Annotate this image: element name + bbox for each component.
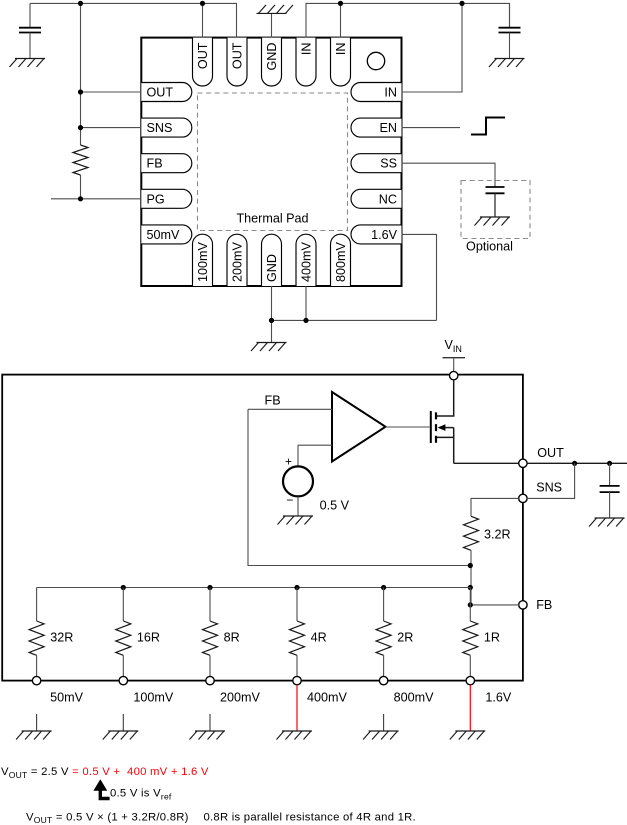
junction left-vert/SNS: [78, 125, 83, 130]
junction FB-loop/3.2R: [468, 563, 473, 568]
wire 1.6V to bottom rail: [402, 234, 437, 320]
pin 800mV (bottom row): [331, 234, 351, 286]
wire rail to 8R: [209, 588, 211, 622]
pin OUT (left col): [141, 83, 192, 102]
resistor 16R: [116, 621, 131, 655]
wire resistor ladder rail: [37, 587, 471, 589]
svg-text:1R: 1R: [484, 631, 500, 645]
svg-text:2R: 2R: [397, 631, 413, 645]
svg-text:32R: 32R: [50, 631, 73, 645]
junction rail/2R: [381, 585, 386, 590]
svg-text:100mV: 100mV: [133, 690, 174, 704]
svg-text:NC: NC: [379, 192, 397, 206]
svg-text:GND: GND: [265, 254, 279, 282]
wire to pin OUT (left): [81, 91, 142, 93]
wire non-inverting input: [298, 444, 332, 446]
svg-text:OUT: OUT: [196, 42, 210, 69]
junction gnd-rail/GND: [269, 318, 274, 323]
resistor 4R: [290, 621, 305, 655]
svg-text:FB: FB: [265, 393, 281, 407]
svg-text:OUT: OUT: [537, 446, 564, 460]
junction left-vert/OUT: [78, 89, 83, 94]
wire 2R to terminal: [383, 655, 385, 676]
wire rail to 1R: [469, 588, 471, 622]
junction rail/8R: [207, 585, 212, 590]
wire 8R to terminal: [209, 655, 211, 676]
resistor 2R: [376, 621, 391, 655]
wire 4R to terminal: [296, 655, 298, 676]
wire stub gnd 50mV: [36, 714, 38, 731]
svg-text:400mV: 400mV: [307, 690, 348, 704]
svg-text:0.8R is parallel resistance of: 0.8R is parallel resistance of 4R and 1R…: [204, 811, 416, 823]
wire rail to 2R: [383, 588, 385, 622]
svg-text:VOUT = 2.5 V = 0.5 V + 400 mV: VOUT = 2.5 V = 0.5 V + 400 mV + 1.6 V: [1, 766, 209, 780]
ground 800mV (floating): [363, 731, 399, 740]
wire op-amp out to gate: [386, 426, 430, 428]
ground 1.6V (selected): [450, 731, 486, 740]
svg-text:0.5 V is Vref: 0.5 V is Vref: [110, 788, 172, 802]
terminal pin 800mV: [379, 676, 387, 684]
svg-text:+: +: [285, 454, 292, 468]
wire to pin SNS: [81, 127, 142, 129]
junction left-vert/PG: [78, 196, 83, 201]
wire bottom gnd rail: [272, 319, 437, 321]
junction OUT/cap: [607, 461, 612, 466]
pin SS (right col): [351, 154, 402, 173]
pin 50mV (left col): [141, 225, 192, 244]
wire 32R to terminal: [36, 655, 38, 676]
pin 1 indicator circle: [367, 52, 384, 69]
svg-text:−: −: [286, 493, 293, 507]
wire drop to pin OUT1: [202, 3, 204, 37]
voltage source Vref 0.5V: [283, 466, 313, 496]
svg-text:SNS: SNS: [536, 480, 562, 494]
resistor 1R: [463, 621, 478, 655]
junction rail/4R: [294, 585, 299, 590]
EN step waveform symbol: [471, 118, 505, 135]
svg-text:200mV: 200mV: [220, 690, 261, 704]
svg-text:VIN: VIN: [445, 338, 462, 354]
pin 200mV (bottom row): [227, 234, 247, 286]
wire 400mV to ground (red): [296, 685, 298, 731]
wire 1.6V to ground (red): [469, 685, 471, 731]
VIN supply bar: [443, 357, 466, 359]
terminal FB: [519, 601, 527, 609]
terminal pin 1.6V: [466, 676, 474, 684]
resistor 32R: [29, 621, 44, 655]
pin FB (left col): [141, 154, 192, 173]
junction rail2/pin IN5: [338, 1, 343, 6]
svg-text:OUT: OUT: [231, 42, 245, 69]
svg-text:16R: 16R: [137, 631, 160, 645]
resistor PG pull-up: [73, 145, 88, 175]
terminal pin 50mV: [32, 676, 40, 684]
wire VIN to terminal: [453, 358, 455, 372]
wire drop to pin IN5: [340, 3, 342, 37]
pin IN (right col): [351, 83, 402, 102]
wire EN: [402, 127, 461, 129]
pin EN (right col): [351, 118, 402, 137]
wire SNS internal: [471, 498, 519, 516]
wire OUT external: [527, 462, 627, 464]
svg-text:VOUT = 0.5 V × (1 + 3.2R/0.8R): VOUT = 0.5 V × (1 + 3.2R/0.8R): [26, 811, 189, 825]
wire rail OUT (top-left): [30, 3, 237, 37]
ground C2: [489, 59, 525, 68]
svg-text:1.6V: 1.6V: [371, 228, 398, 242]
terminal OUT: [519, 459, 527, 467]
wire PG stub: [51, 198, 141, 200]
capacitor C2 input (right): [499, 3, 521, 58]
junction OUT/SNS kelvin: [572, 461, 577, 466]
wire rail to 32R: [36, 588, 38, 622]
wire SNS kelvin sense: [527, 463, 575, 498]
ground Vref: [278, 516, 314, 525]
capacitor C1 input (left): [19, 3, 41, 58]
svg-text:Thermal Pad: Thermal Pad: [236, 212, 308, 226]
junction rail/16R: [121, 585, 126, 590]
pin OUT (top row): [193, 38, 213, 86]
resistor 3.2R: [464, 516, 479, 550]
svg-text:1.6V: 1.6V: [485, 690, 512, 704]
pin NC (right col): [351, 189, 402, 208]
svg-text:SS: SS: [380, 157, 397, 171]
functional block outline: [2, 375, 523, 681]
ground 200mV (floating): [190, 731, 226, 740]
junction rail/left-vert: [78, 1, 83, 6]
pin IN (top row): [296, 38, 316, 86]
wire rail to 4R: [296, 588, 298, 622]
pin PG (left col): [141, 189, 192, 208]
wire 1R to terminal: [469, 655, 471, 676]
ground C3: [589, 518, 625, 527]
terminal pin 100mV: [119, 676, 127, 684]
wire Vref to ground: [297, 496, 299, 516]
wire stub gnd 200mV: [209, 714, 211, 731]
wire FB feedback loop: [248, 409, 470, 565]
wire 400mV pin down: [305, 286, 307, 320]
capacitor optional SS: [486, 187, 505, 217]
svg-text:PG: PG: [147, 192, 165, 206]
svg-text:SNS: SNS: [147, 121, 173, 135]
annotation arrow: [100, 790, 109, 799]
svg-text:8R: 8R: [224, 631, 240, 645]
wire 16R to terminal: [122, 655, 124, 676]
svg-text:FB: FB: [536, 598, 552, 612]
wire resistor to PG: [80, 175, 82, 199]
svg-text:IN: IN: [300, 43, 314, 56]
wire SS to optional cap: [402, 163, 496, 187]
optional cap dashed box: [461, 181, 530, 239]
junction gnd-rail/400mV: [303, 318, 308, 323]
svg-text:0.5 V: 0.5 V: [320, 499, 350, 513]
svg-text:IN: IN: [334, 43, 348, 56]
IC package outline: [141, 38, 401, 286]
ground above GND pin: [257, 5, 294, 14]
terminal pin 400mV: [293, 676, 301, 684]
svg-text:400mV: 400mV: [300, 241, 314, 282]
junction rail2/IN-drop: [459, 1, 464, 6]
pin GND (top row): [262, 38, 282, 86]
thermal pad dashed outline: [198, 93, 348, 231]
resistor 8R: [203, 621, 218, 655]
wire rail IN (top-right): [306, 3, 510, 37]
junction FB-node/rail: [468, 585, 473, 590]
svg-text:IN: IN: [384, 86, 397, 100]
ground C1: [10, 59, 46, 68]
wire rail to 16R: [122, 588, 124, 622]
svg-text:50mV: 50mV: [147, 228, 180, 242]
svg-text:EN: EN: [380, 121, 398, 135]
pin OUT (top row): [227, 38, 247, 86]
svg-text:Optional: Optional: [466, 240, 513, 254]
ground bottom of package: [251, 343, 287, 352]
capacitor C3 output: [600, 463, 620, 518]
junction FB-node/FB-pin: [468, 602, 473, 607]
wire inverting input: [248, 408, 332, 410]
pin IN (top row): [331, 38, 351, 86]
wire to Vref source: [297, 445, 299, 466]
svg-text:OUT: OUT: [147, 86, 174, 100]
wire left vertical OUT/SNS: [80, 3, 82, 145]
wire FB node to FB pin: [470, 604, 518, 606]
svg-text:50mV: 50mV: [50, 690, 83, 704]
ground 50mV (floating): [16, 731, 52, 740]
op-amp error amplifier: [332, 392, 386, 462]
svg-text:100mV: 100mV: [196, 241, 210, 282]
wire GND pin down: [271, 286, 273, 343]
ground 400mV (selected): [277, 731, 313, 740]
terminal VIN: [450, 371, 458, 379]
pin 100mV (bottom row): [193, 234, 213, 286]
wire rail to IN pin (right): [402, 3, 463, 92]
wire FET source to OUT: [454, 462, 519, 464]
transistor Q1 pass FET: [431, 380, 454, 464]
ground 100mV (floating): [103, 731, 139, 740]
svg-text:4R: 4R: [311, 631, 327, 645]
svg-text:FB: FB: [147, 157, 163, 171]
pin GND (bottom row): [262, 234, 282, 286]
svg-text:3.2R: 3.2R: [484, 528, 511, 542]
pin SNS (left col): [141, 118, 192, 137]
junction rail/pin OUT1: [200, 1, 205, 6]
svg-text:800mV: 800mV: [334, 241, 348, 282]
wire 3.2R to FB node: [470, 550, 472, 605]
terminal pin 200mV: [206, 676, 214, 684]
svg-text:800mV: 800mV: [394, 690, 435, 704]
pin 400mV (bottom row): [296, 234, 316, 286]
wire GND pin up: [271, 13, 273, 37]
svg-text:200mV: 200mV: [231, 241, 245, 282]
pin 1.6V (right col): [351, 225, 402, 244]
svg-text:GND: GND: [265, 43, 279, 71]
ground optional cap: [475, 217, 511, 226]
wire stub gnd 800mV: [383, 714, 385, 731]
terminal SNS: [519, 494, 527, 502]
wire stub gnd 100mV: [122, 714, 124, 731]
